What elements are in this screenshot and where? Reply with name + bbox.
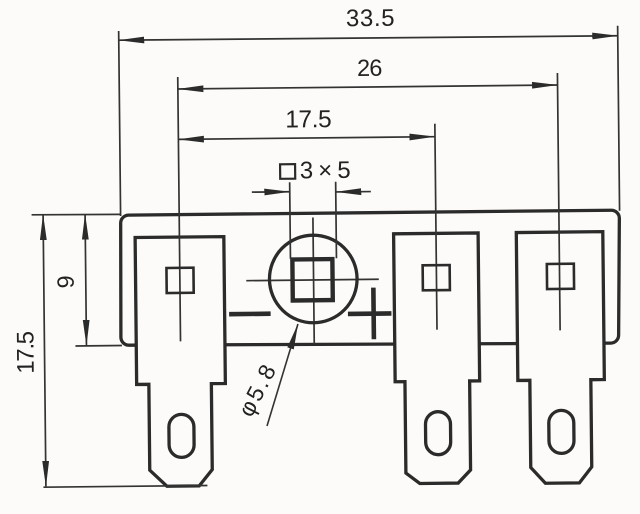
callout square symbol bbox=[280, 164, 295, 179]
center line tab1 bbox=[178, 77, 181, 341]
minus sign bbox=[229, 311, 271, 316]
extension line 3x5 left bbox=[289, 182, 292, 258]
svg-text:9: 9 bbox=[53, 275, 79, 288]
extension line 33.5 left bbox=[119, 31, 121, 216]
tab 2 (middle) bbox=[394, 233, 481, 484]
svg-text:17.5: 17.5 bbox=[285, 106, 331, 133]
tab 1 (left) bbox=[135, 237, 226, 487]
center line tab2 bbox=[435, 124, 437, 330]
extension line 33.5 right bbox=[618, 26, 620, 211]
oval slot tab3 bbox=[549, 410, 574, 453]
tab 3 (right) bbox=[516, 232, 605, 484]
oval slot tab1 bbox=[169, 414, 194, 457]
dim line 17.5 vertical bbox=[43, 215, 46, 487]
center line tab3 bbox=[557, 73, 560, 330]
svg-text:17.5: 17.5 bbox=[12, 331, 39, 374]
extension line body-bottom left bbox=[75, 344, 121, 346]
plus sign bbox=[348, 311, 392, 316]
dim line 33.5 bbox=[119, 35, 618, 41]
circle horizontal center line bbox=[246, 279, 378, 280]
svg-text:26: 26 bbox=[357, 55, 383, 81]
dim line 9 vertical bbox=[85, 214, 86, 345]
leader line phi5.8 bbox=[266, 324, 299, 426]
dim line 17.5 horizontal bbox=[178, 137, 435, 140]
dim line 26 bbox=[178, 85, 558, 89]
center square hole 3x5 bbox=[292, 259, 332, 300]
body outline bbox=[120, 210, 621, 348]
extension line tabs-bottom left bbox=[43, 485, 207, 487]
square hole tab2 bbox=[423, 265, 450, 290]
dim arrow 3x5 right bbox=[336, 191, 371, 193]
center circle phi5.8 bbox=[269, 235, 358, 324]
square hole tab3 bbox=[547, 264, 574, 289]
oval slot tab2 bbox=[425, 412, 450, 455]
extension line body-top left bbox=[32, 214, 121, 215]
circle vertical center line bbox=[313, 217, 314, 343]
svg-text:33.5: 33.5 bbox=[346, 5, 395, 33]
square hole tab1 bbox=[166, 268, 193, 293]
dim arrow 3x5 left bbox=[252, 191, 290, 193]
extension line 3x5 right bbox=[335, 182, 338, 258]
svg-text:3 × 5: 3 × 5 bbox=[300, 157, 351, 185]
